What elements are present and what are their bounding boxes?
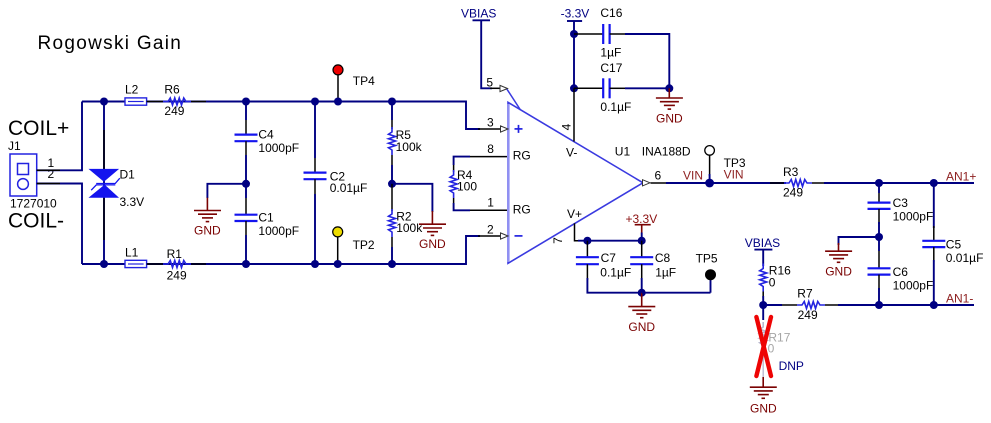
svg-text:GND: GND bbox=[194, 224, 221, 238]
svg-text:R6: R6 bbox=[164, 83, 180, 97]
connector J1 bbox=[8, 139, 57, 210]
pin number 6 bbox=[655, 169, 662, 183]
svg-text:V-: V- bbox=[566, 146, 577, 160]
capacitor C7 bbox=[576, 241, 642, 293]
junction C3/C6 bbox=[875, 233, 883, 241]
junction C6 bottom bbox=[875, 301, 883, 309]
junction R5/R2 bbox=[388, 180, 396, 188]
net label AN1- bbox=[946, 291, 973, 305]
power port VBIAS (R16) bbox=[745, 236, 780, 266]
capacitor C16 bbox=[574, 6, 669, 88]
svg-text:C16: C16 bbox=[600, 6, 622, 20]
capacitor C4 bbox=[235, 102, 300, 184]
capacitor C6 bbox=[868, 237, 934, 305]
svg-text:C6: C6 bbox=[893, 265, 909, 279]
svg-text:249: 249 bbox=[783, 186, 803, 200]
pin arrow 5 bbox=[500, 85, 508, 91]
wire L2-R6 leads bbox=[147, 101, 206, 103]
ground GND (C7/C8) bbox=[628, 293, 655, 334]
power port VBIAS (pin 5) bbox=[461, 7, 500, 89]
svg-text:R7: R7 bbox=[797, 287, 813, 301]
svg-text:V+: V+ bbox=[567, 207, 582, 221]
wire pin2 lead bbox=[478, 235, 501, 237]
capacitor C1 bbox=[235, 184, 300, 264]
wire L1-R1 leads bbox=[147, 263, 206, 265]
svg-text:100k: 100k bbox=[396, 221, 423, 235]
svg-text:VBIAS: VBIAS bbox=[461, 7, 496, 21]
ground GND (C4/C1 node) bbox=[194, 184, 246, 238]
svg-text:AN1+: AN1+ bbox=[946, 169, 976, 183]
junction D1 bottom bbox=[100, 260, 108, 268]
resistor R1 bbox=[163, 247, 191, 283]
svg-text:1000pF: 1000pF bbox=[258, 141, 299, 155]
svg-text:RG: RG bbox=[513, 202, 531, 216]
pin number 2 bbox=[487, 222, 494, 236]
junction TP2 bbox=[334, 260, 342, 268]
svg-text:D1: D1 bbox=[120, 168, 136, 182]
svg-text:4: 4 bbox=[560, 123, 574, 130]
ground GND (R5/R2 node) bbox=[392, 184, 446, 251]
ground GND (R17) bbox=[750, 377, 777, 416]
svg-text:249: 249 bbox=[167, 269, 187, 283]
svg-text:1000pF: 1000pF bbox=[893, 209, 934, 223]
resistor R3 bbox=[770, 165, 826, 200]
wire VIN to R3 bbox=[710, 182, 786, 184]
pin number 1 (J1) bbox=[48, 156, 55, 170]
wire J1 pin2 to bottom rail bbox=[37, 184, 82, 265]
minus input marker bbox=[515, 235, 523, 237]
wire AN1+ rail bbox=[879, 182, 934, 184]
junction VIN bbox=[705, 179, 714, 188]
inductor L1 bbox=[125, 246, 147, 268]
svg-text:3.3V: 3.3V bbox=[120, 195, 145, 209]
junction C4 top bbox=[242, 98, 250, 106]
junction C16 left bbox=[570, 30, 578, 38]
title Rogowski Gain bbox=[38, 33, 183, 54]
capacitor C17 bbox=[574, 61, 669, 114]
junction C1 bottom bbox=[242, 260, 250, 268]
resistor R17 (DNP) bbox=[760, 305, 791, 377]
capacitor C3 bbox=[868, 183, 934, 237]
pin arrow 2 bbox=[501, 233, 509, 239]
svg-text:RG: RG bbox=[513, 149, 531, 163]
svg-text:C8: C8 bbox=[655, 251, 671, 265]
resistor R5 bbox=[389, 102, 423, 184]
junction C5 top bbox=[930, 179, 938, 187]
svg-text:VBIAS: VBIAS bbox=[745, 236, 780, 250]
svg-text:GND: GND bbox=[419, 237, 446, 251]
plus input marker bbox=[515, 128, 523, 130]
junction R5 top bbox=[388, 98, 396, 106]
svg-text:J1: J1 bbox=[8, 139, 21, 153]
junction C4/C1 bbox=[242, 180, 250, 188]
wire J1 pin1 to top rail bbox=[37, 102, 82, 171]
svg-text:C5: C5 bbox=[946, 238, 962, 252]
power port +3.3V bbox=[626, 212, 658, 241]
svg-text:COIL-: COIL- bbox=[8, 209, 64, 232]
wire pin3 lead bbox=[478, 128, 501, 130]
svg-text:TP2: TP2 bbox=[353, 238, 375, 252]
junction C2 bottom bbox=[311, 260, 319, 268]
junction TP4 bbox=[334, 98, 342, 106]
svg-text:DNP: DNP bbox=[779, 359, 804, 373]
test point TP3 bbox=[705, 146, 746, 183]
inductor L2 bbox=[125, 83, 147, 106]
svg-text:1µF: 1µF bbox=[655, 266, 676, 280]
junction R16/R7 bbox=[759, 301, 767, 309]
svg-text:COIL+: COIL+ bbox=[8, 117, 69, 140]
diode D1 (TVS, bidirectional) bbox=[90, 102, 145, 265]
svg-text:-3.3V: -3.3V bbox=[561, 7, 590, 21]
pin number 5 bbox=[486, 76, 493, 90]
svg-text:6: 6 bbox=[655, 169, 662, 183]
net label DNP bbox=[779, 359, 804, 373]
wire bottom rail bbox=[82, 236, 480, 264]
svg-text:TP4: TP4 bbox=[353, 74, 375, 88]
junction C17 right bbox=[665, 84, 673, 92]
junction C8 bottom bbox=[638, 289, 646, 297]
capacitor C2 bbox=[304, 102, 368, 265]
wire pin 7 bbox=[575, 223, 581, 241]
wire output pin 6 bbox=[651, 182, 710, 184]
output arrow pin 6 bbox=[643, 180, 651, 186]
svg-text:0.1µF: 0.1µF bbox=[600, 100, 631, 114]
resistor R16 bbox=[760, 264, 791, 306]
svg-text:1000pF: 1000pF bbox=[258, 224, 299, 238]
pin arrow 3 bbox=[501, 126, 509, 132]
net label VIN (wire) bbox=[683, 169, 703, 183]
test point TP4 bbox=[333, 65, 375, 102]
svg-text:AN1-: AN1- bbox=[946, 291, 973, 305]
svg-text:R3: R3 bbox=[783, 165, 799, 179]
svg-text:VIN: VIN bbox=[724, 168, 744, 182]
svg-text:L2: L2 bbox=[125, 83, 139, 97]
wire AN1- stub bbox=[934, 304, 974, 306]
junction C17 left bbox=[570, 84, 578, 92]
junction C3 top bbox=[875, 179, 883, 187]
svg-text:C17: C17 bbox=[600, 61, 622, 75]
capacitor C8 bbox=[630, 241, 676, 293]
svg-text:C4: C4 bbox=[258, 128, 274, 142]
resistor R2 bbox=[389, 184, 424, 264]
svg-text:GND: GND bbox=[656, 112, 683, 126]
pin number 8 bbox=[487, 142, 494, 156]
svg-text:7: 7 bbox=[551, 237, 565, 244]
wire V+ rail bbox=[578, 240, 642, 242]
net label AN1+ bbox=[946, 169, 976, 183]
svg-text:249: 249 bbox=[798, 308, 818, 322]
wire R7 to AN1- bbox=[838, 304, 879, 306]
svg-text:C7: C7 bbox=[601, 251, 617, 265]
svg-text:0: 0 bbox=[769, 276, 776, 290]
op-amp U1 bbox=[500, 85, 691, 263]
pin number 1 bbox=[487, 196, 494, 210]
svg-text:GND: GND bbox=[825, 264, 852, 278]
junction C2 top bbox=[311, 98, 319, 106]
pin number 2 (J1) bbox=[48, 167, 55, 181]
svg-text:2: 2 bbox=[48, 167, 55, 181]
svg-text:0.1µF: 0.1µF bbox=[600, 266, 631, 280]
ground GND (C16/C17) bbox=[656, 88, 683, 125]
power port -3.3V (pin 4 net) bbox=[561, 7, 590, 89]
svg-text:249: 249 bbox=[164, 104, 184, 118]
wire AN1- rail bbox=[879, 304, 934, 306]
svg-text:0.01µF: 0.01µF bbox=[946, 251, 984, 265]
svg-text:0: 0 bbox=[768, 342, 775, 356]
svg-text:U1: U1 bbox=[615, 145, 631, 159]
svg-text:1: 1 bbox=[487, 196, 494, 210]
resistor R4 bbox=[450, 157, 507, 211]
net COIL- bbox=[8, 209, 64, 232]
junction D1 top bbox=[100, 98, 108, 106]
svg-text:100k: 100k bbox=[396, 140, 423, 154]
wire R3 to AN1+ bbox=[824, 182, 879, 184]
svg-text:GND: GND bbox=[750, 402, 777, 416]
test point TP2 bbox=[333, 227, 375, 264]
pin number 3 bbox=[487, 115, 494, 129]
capacitor C5 bbox=[922, 183, 983, 305]
svg-text:Rogowski Gain: Rogowski Gain bbox=[38, 33, 183, 54]
svg-text:1727010: 1727010 bbox=[10, 196, 57, 210]
svg-text:1000pF: 1000pF bbox=[893, 279, 934, 293]
ground GND (C3/C6 node) bbox=[825, 237, 879, 278]
svg-text:100: 100 bbox=[457, 179, 477, 193]
resistor R7 bbox=[780, 287, 840, 323]
junction R2 bottom bbox=[388, 260, 396, 268]
svg-text:3: 3 bbox=[487, 115, 494, 129]
wire AN1+ stub bbox=[934, 182, 974, 184]
svg-text:TP5: TP5 bbox=[696, 252, 718, 266]
svg-text:8: 8 bbox=[487, 142, 494, 156]
svg-text:5: 5 bbox=[486, 76, 493, 90]
svg-text:GND: GND bbox=[628, 320, 655, 334]
net COIL+ bbox=[8, 117, 69, 140]
svg-text:C3: C3 bbox=[893, 196, 909, 210]
svg-text:0.01µF: 0.01µF bbox=[330, 181, 368, 195]
resistor R6 bbox=[163, 83, 191, 118]
junction C5 bottom bbox=[930, 301, 938, 309]
wire R16 node to R7 bbox=[763, 304, 782, 306]
net label VIN (TP3) bbox=[724, 168, 744, 182]
svg-text:VIN: VIN bbox=[683, 169, 703, 183]
junction C7 top bbox=[583, 237, 591, 245]
svg-text:L1: L1 bbox=[125, 246, 139, 260]
wire pin 4 bbox=[573, 88, 575, 141]
wire top rail bbox=[82, 102, 480, 130]
svg-text:2: 2 bbox=[487, 222, 494, 236]
junction C8 top bbox=[638, 237, 646, 245]
svg-text:C1: C1 bbox=[258, 211, 274, 225]
svg-text:INA188D: INA188D bbox=[642, 145, 691, 159]
DNP cross X bbox=[756, 317, 771, 376]
test point TP5 bbox=[642, 252, 718, 293]
svg-text:1µF: 1µF bbox=[600, 46, 621, 60]
